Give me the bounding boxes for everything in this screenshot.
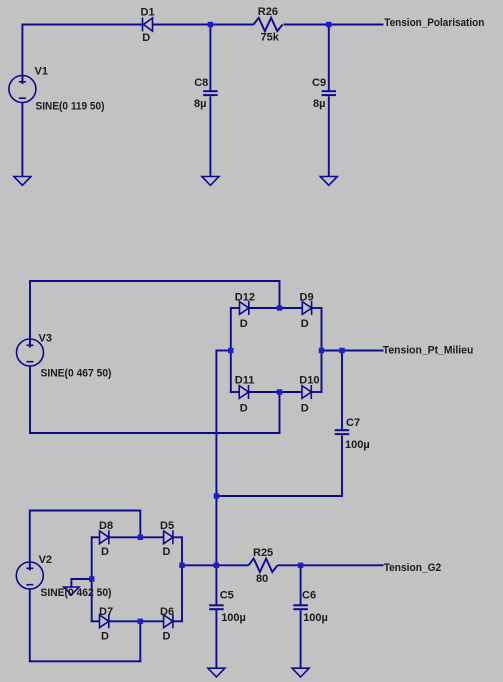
svg-text:D: D (101, 631, 109, 643)
svg-text:D9: D9 (300, 292, 314, 304)
svg-text:D12: D12 (235, 292, 255, 304)
svg-text:D: D (240, 402, 248, 414)
svg-text:C9: C9 (312, 77, 326, 89)
svg-text:C5: C5 (220, 590, 234, 602)
svg-text:8µ: 8µ (194, 98, 206, 110)
svg-text:C8: C8 (194, 77, 208, 89)
svg-text:Tension_Pt_Milieu: Tension_Pt_Milieu (383, 345, 474, 357)
svg-text:D6: D6 (160, 606, 174, 618)
svg-text:8µ: 8µ (313, 98, 325, 110)
svg-text:C6: C6 (302, 590, 316, 602)
svg-text:D: D (163, 631, 171, 643)
svg-text:D5: D5 (160, 520, 174, 532)
svg-text:D: D (142, 32, 150, 44)
svg-text:SINE(0 467 50): SINE(0 467 50) (41, 368, 112, 380)
svg-text:D8: D8 (99, 520, 113, 532)
svg-text:80: 80 (256, 573, 268, 585)
svg-text:D: D (240, 318, 248, 330)
svg-text:D: D (301, 318, 309, 330)
svg-text:D11: D11 (235, 375, 255, 387)
svg-text:D: D (101, 546, 109, 558)
svg-text:C7: C7 (346, 417, 360, 429)
svg-text:100µ: 100µ (345, 439, 370, 451)
svg-text:R25: R25 (253, 547, 273, 559)
svg-text:D1: D1 (141, 6, 155, 18)
svg-text:V3: V3 (39, 333, 52, 345)
svg-text:D: D (163, 546, 171, 558)
svg-text:D: D (301, 402, 309, 414)
svg-text:V1: V1 (35, 66, 48, 78)
svg-text:SINE(0 462 50): SINE(0 462 50) (41, 587, 112, 599)
svg-text:75k: 75k (261, 32, 280, 44)
svg-text:R26: R26 (258, 6, 278, 18)
svg-text:D10: D10 (299, 375, 319, 387)
svg-text:Tension_Polarisation: Tension_Polarisation (384, 17, 484, 29)
svg-text:100µ: 100µ (221, 612, 246, 624)
svg-text:V2: V2 (39, 554, 52, 566)
svg-text:D7: D7 (99, 606, 113, 618)
svg-text:Tension_G2: Tension_G2 (384, 562, 442, 574)
svg-text:100µ: 100µ (303, 612, 328, 624)
svg-text:SINE(0 119 50): SINE(0 119 50) (36, 101, 105, 113)
